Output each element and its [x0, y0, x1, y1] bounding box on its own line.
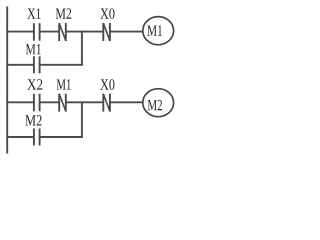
contact M2 branch2 — [33, 129, 35, 146]
node junction2 vertical — [81, 101, 83, 137]
wire rung1 rail to X1 — [6, 31, 34, 33]
wire rung2 X2 to M1 — [40, 101, 60, 103]
label M2 branch2 — [25, 115, 41, 125]
contact X1 — [33, 23, 35, 41]
wire rung1 X0 to coil M1 — [110, 31, 143, 33]
wire branch2 M2 to junction2 — [40, 136, 83, 138]
wire rung2 X0 to coil M2 — [110, 101, 143, 103]
label X0 rung2 — [100, 79, 114, 90]
wire rung2 M1 to X0 — [66, 101, 104, 103]
contact M2 (NC) — [58, 23, 60, 41]
wire rung2 rail to X2 — [6, 101, 34, 103]
wire branch1 rail to M1 — [6, 64, 34, 66]
left power rail — [6, 7, 8, 154]
contact M1 — [33, 56, 35, 73]
wire branch2 rail to M2 — [6, 136, 34, 138]
contact M1 (NC) rung2 — [58, 94, 60, 112]
label X0 rung1 — [100, 8, 114, 19]
wire rung1 M2 to X0 — [66, 31, 104, 33]
label M1 branch1 — [26, 44, 41, 54]
label M1 coil1 — [147, 25, 162, 35]
label X2 — [27, 79, 42, 89]
node junction1 vertical — [81, 31, 83, 66]
label X1 — [27, 8, 40, 18]
label M2 coil2 — [148, 100, 162, 110]
label M2 — [56, 8, 72, 18]
wire rung1 X1 to M2 — [40, 31, 60, 33]
wire branch1 M1 to junction1 — [40, 64, 83, 66]
coil M2 — [143, 89, 174, 117]
coil M1 — [143, 17, 174, 45]
contact X2 — [33, 94, 35, 112]
label M1 rung2 — [57, 79, 71, 89]
contact X0 (NC) rung2 — [102, 94, 104, 112]
contact X0 (NC) rung1 — [102, 23, 104, 41]
